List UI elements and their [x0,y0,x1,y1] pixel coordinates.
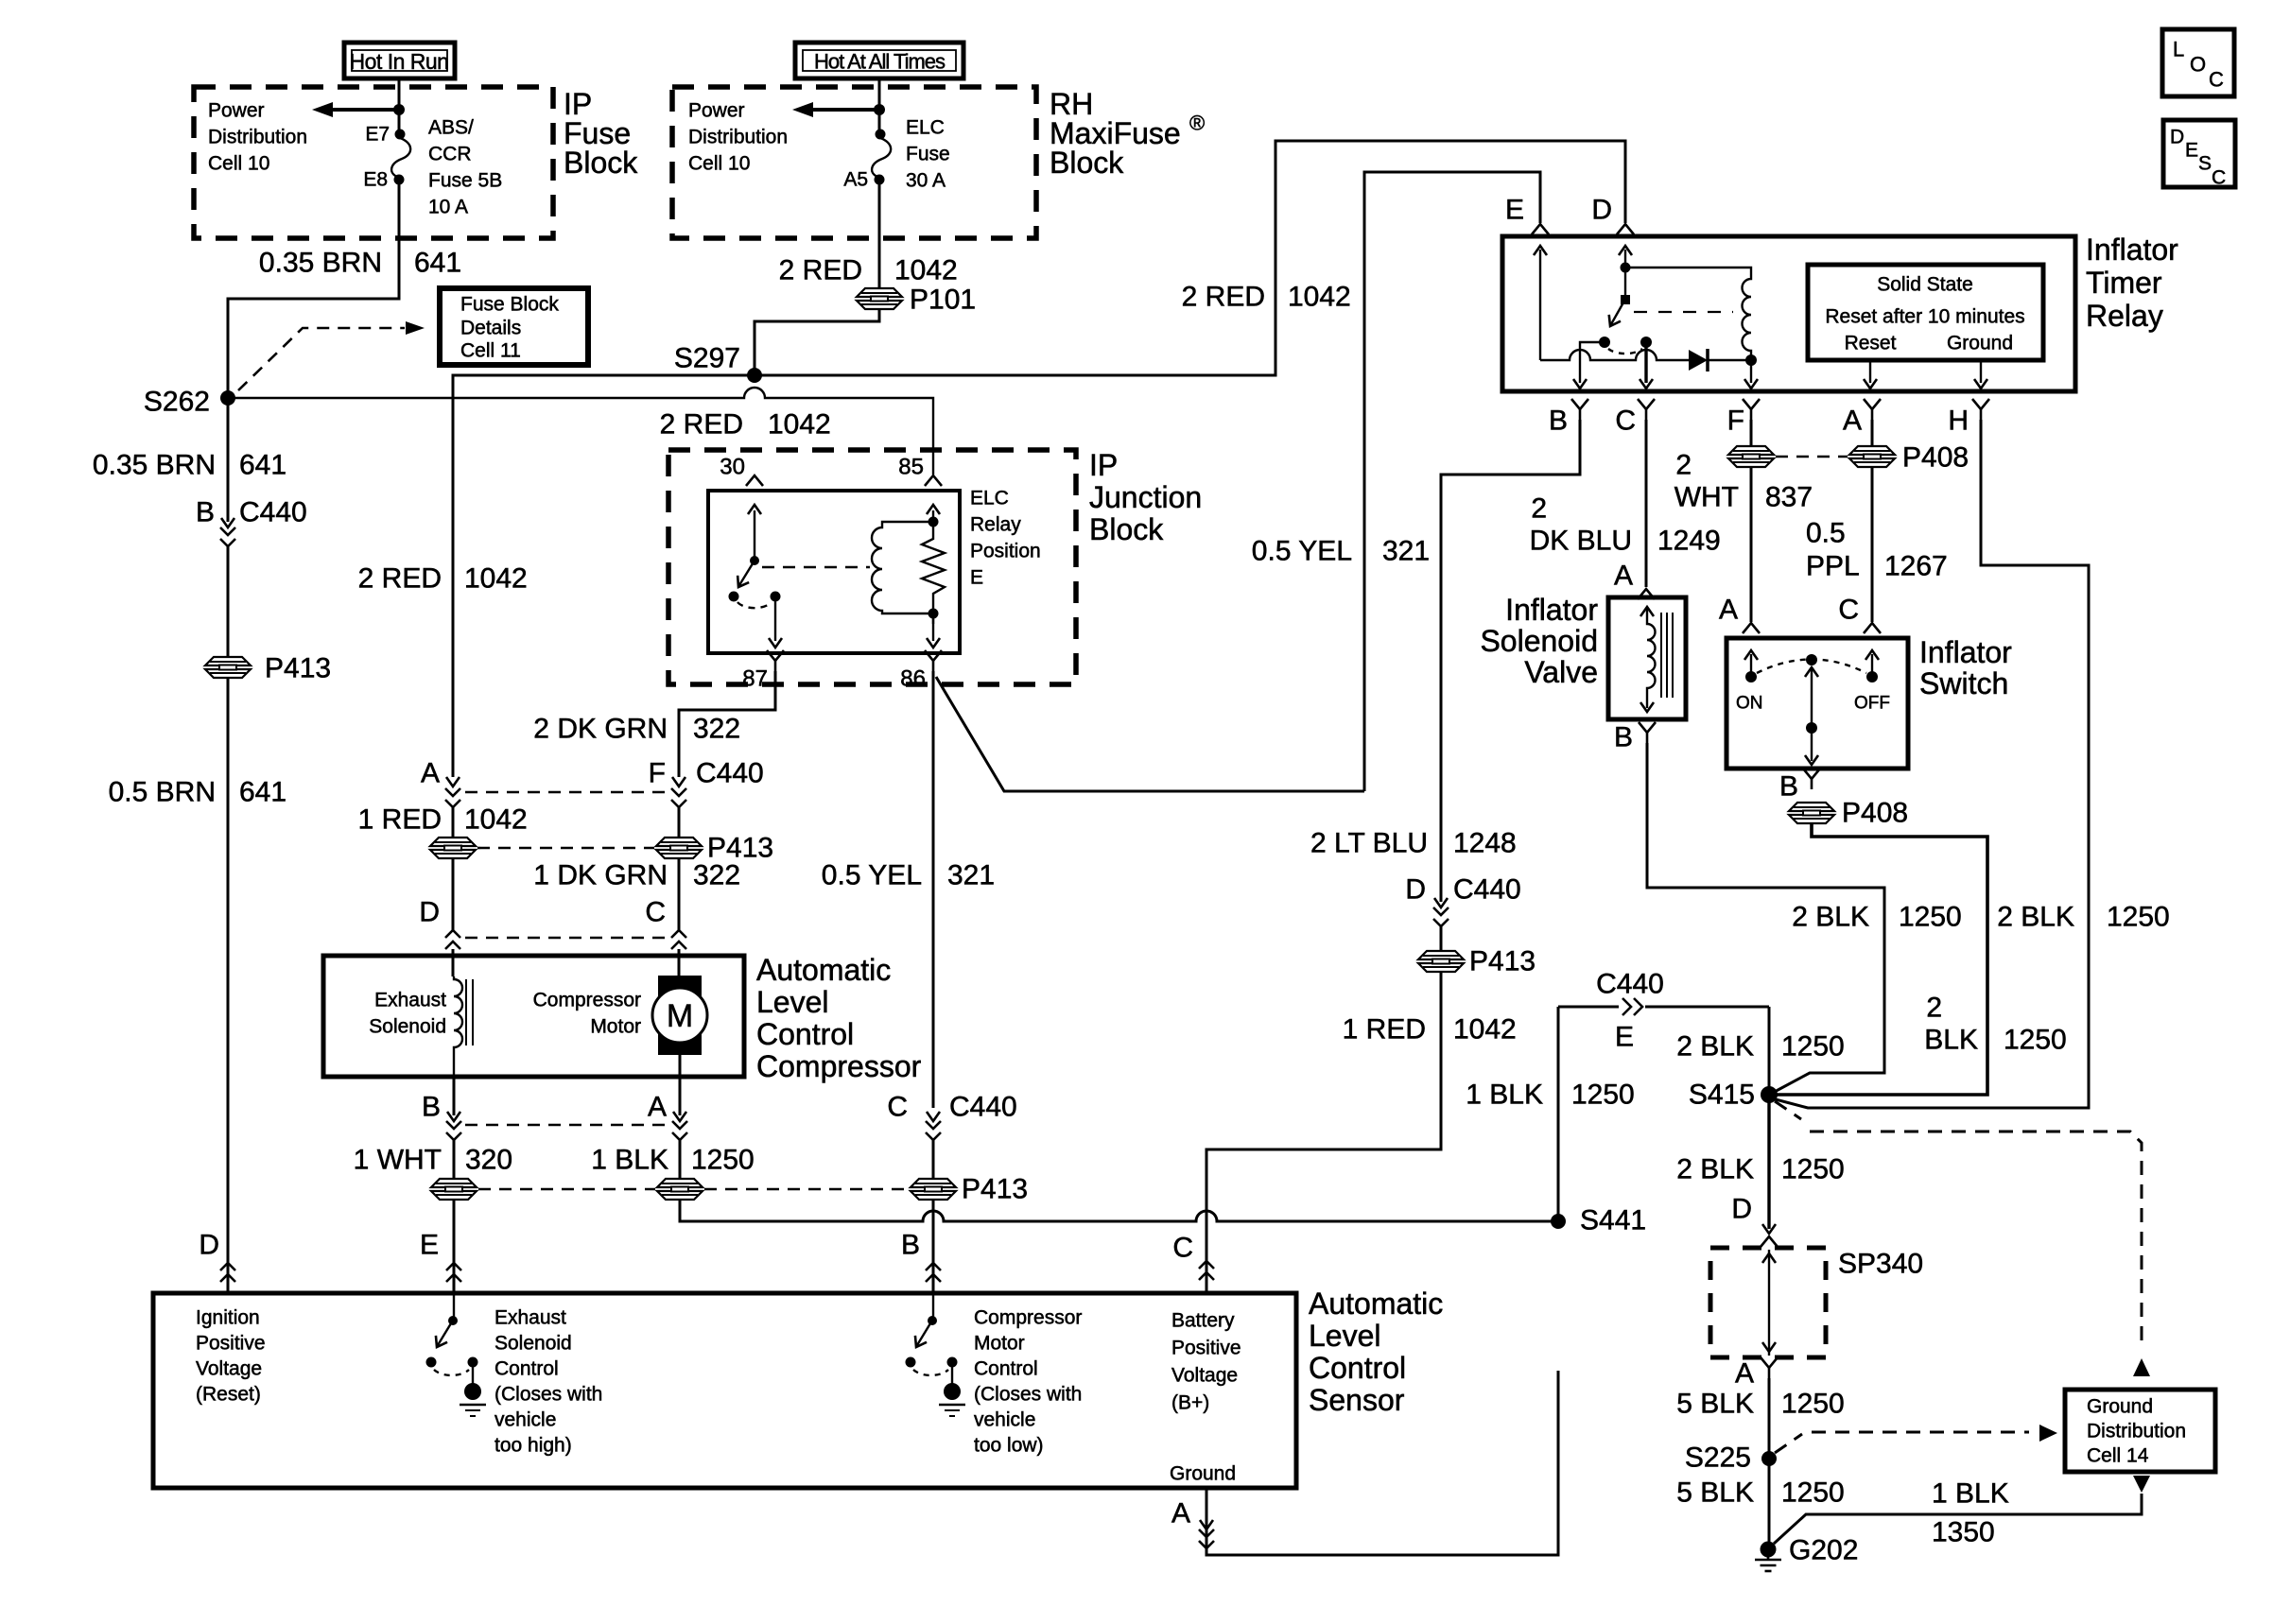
svg-text:Control: Control [756,1017,854,1051]
connector P408 (A side) [1849,446,1895,467]
switch ON contact [1736,650,1763,714]
wire 0.5 YEL to sensor B [932,1200,935,1293]
svg-text:Block: Block [1050,146,1124,180]
svg-text:Motor: Motor [974,1333,1025,1355]
svg-text:2 BLK: 2 BLK [1792,902,1869,933]
svg-text:Compressor: Compressor [756,1049,922,1083]
svg-text:D: D [199,1230,219,1261]
svg-text:P408: P408 [1842,798,1908,829]
svg-text:B: B [901,1230,920,1261]
dashed connector line D-C [465,937,668,940]
svg-text:1 RED: 1 RED [1343,1014,1426,1045]
svg-text:0.35 BRN: 0.35 BRN [259,248,382,279]
svg-text:B: B [422,1092,441,1123]
svg-text:Distribution: Distribution [208,127,307,148]
connector P101 [857,288,902,309]
relay contact 30 arm [729,505,762,602]
ALC compressor box [323,956,744,1077]
svg-text:DK BLU: DK BLU [1530,526,1632,557]
power distribution feed arrow [312,102,405,117]
svg-text:0.5 YEL: 0.5 YEL [822,860,922,891]
IP junction block dashed box [668,450,1076,684]
svg-text:C440: C440 [1453,874,1521,906]
connector P413 (red wire) [430,838,476,858]
svg-text:2 LT BLU: 2 LT BLU [1310,828,1428,859]
relay coil (ELC) [872,517,939,619]
ELC fuse upper terminal [876,130,886,140]
svg-text:Solenoid: Solenoid [369,1016,446,1038]
switch OFF contact [1854,650,1890,714]
svg-text:S415: S415 [1689,1080,1755,1111]
wire from Hot At All Times into maxifuse block [878,78,881,134]
svg-text:too low): too low) [974,1435,1044,1457]
svg-text:E: E [2185,140,2198,162]
svg-text:1250: 1250 [1571,1080,1635,1111]
svg-text:1250: 1250 [691,1145,755,1176]
solenoid valve coil [1640,607,1673,712]
svg-text:Distribution: Distribution [688,127,788,148]
svg-text:L: L [2173,38,2184,61]
svg-text:1042: 1042 [464,563,528,595]
wire relay H to S415 [1772,420,2089,1108]
svg-text:P413: P413 [265,653,331,684]
inflator switch box [1726,638,1908,769]
svg-text:D: D [419,897,440,928]
svg-text:30 A: 30 A [906,170,946,192]
svg-text:0.5: 0.5 [1806,518,1846,549]
svg-text:Distribution: Distribution [2087,1421,2186,1443]
svg-text:B: B [1779,771,1798,803]
svg-text:too high): too high) [495,1435,572,1457]
switch wiper [1805,654,1818,765]
ELC fuse terminal A5 [875,175,885,185]
terminal A (compressor) [648,1077,687,1179]
wire 1 WHT to sensor E [453,1200,456,1293]
svg-text:Compressor: Compressor [533,990,641,1011]
svg-text:2: 2 [1675,450,1692,481]
wire sensor A ground path [1206,1371,1558,1555]
svg-text:B: B [1549,406,1568,437]
wire 0.5 BRN 641 down to sensor D [227,678,230,1293]
svg-text:A: A [1843,406,1862,437]
svg-text:S262: S262 [144,387,210,418]
svg-text:Solenoid: Solenoid [1480,624,1598,658]
relay dashed link to coil [1634,311,1733,313]
svg-text:D: D [1731,1194,1752,1225]
wire 86 to sensor C column [932,671,935,1108]
dashed arrow into distribution [2133,1358,2150,1376]
compressor motor symbol [652,976,707,1077]
svg-text:86: 86 [900,666,926,692]
svg-text:Power: Power [688,100,745,122]
svg-text:(Reset): (Reset) [196,1384,261,1406]
svg-text:Voltage: Voltage [196,1358,262,1380]
svg-text:Block: Block [1089,512,1164,546]
svg-text:E: E [1615,1022,1634,1053]
connector C440 E chevrons [446,1263,461,1282]
terminal A (sensor ground) [1171,1488,1214,1550]
svg-text:2 BLK: 2 BLK [1676,1031,1754,1063]
flag box Hot In Run [344,43,455,78]
svg-text:G202: G202 [1789,1535,1858,1566]
svg-text:C440: C440 [239,497,307,528]
svg-text:C440: C440 [949,1092,1017,1123]
svg-text:Cell 11: Cell 11 [460,340,521,362]
svg-text:1042: 1042 [464,804,528,836]
wire A P408 to switch C [1871,467,1874,622]
wire SP340 A to G202 [1768,1378,1771,1549]
svg-text:C: C [2212,167,2226,189]
dashed arrow into box [2039,1425,2057,1442]
svg-text:H: H [1948,406,1969,437]
svg-text:1250: 1250 [1781,1154,1845,1185]
ELC relay box [708,491,960,653]
svg-text:85: 85 [898,455,924,480]
relay resistor [922,510,945,624]
solid state ground lead [1974,360,1987,389]
svg-text:Ground: Ground [2087,1396,2153,1418]
wire G202 to ground distribution [1774,1494,2142,1544]
svg-text:1249: 1249 [1657,526,1721,557]
svg-text:87: 87 [742,666,768,692]
inflator solenoid valve box [1608,597,1686,719]
svg-text:D: D [2170,127,2184,148]
reference tab LOC [2162,29,2234,96]
svg-text:P413: P413 [962,1174,1028,1205]
svg-text:1 BLK: 1 BLK [1932,1478,2009,1510]
svg-text:Fuse Block: Fuse Block [460,294,559,316]
svg-text:1042: 1042 [894,255,958,286]
svg-text:Level: Level [756,985,829,1019]
svg-text:Power: Power [208,100,265,122]
svg-text:1250: 1250 [1781,1031,1845,1063]
svg-text:C: C [1172,1233,1193,1264]
dashed connector line B-A [465,1124,668,1127]
svg-text:0.5 YEL: 0.5 YEL [1252,536,1352,567]
svg-text:E7: E7 [365,124,390,146]
dashed reference arrow to fuse block details [238,321,425,390]
svg-text:837: 837 [1765,482,1813,513]
svg-text:1 BLK: 1 BLK [591,1145,668,1176]
svg-text:Details: Details [460,318,521,339]
svg-text:1250: 1250 [1781,1477,1845,1509]
svg-text:D: D [1591,195,1612,226]
svg-text:D: D [1405,874,1426,906]
svg-text:30: 30 [720,455,745,480]
SP340 internal link [1762,1250,1776,1356]
wire to S415 [1768,1007,1771,1095]
relay common to B [1580,342,1605,383]
svg-text:Hot In Run: Hot In Run [350,49,449,74]
wire 2 DK GRN 322 from 87 to F [679,671,775,777]
svg-text:B: B [1614,722,1633,753]
splice S262 [220,390,235,406]
svg-text:Solid State: Solid State [1877,274,1973,296]
svg-text:C: C [1615,406,1636,437]
svg-text:C: C [1838,595,1859,626]
svg-text:Level: Level [1309,1319,1381,1353]
svg-text:S441: S441 [1580,1205,1646,1236]
wire 1 RED to compressor D [452,858,455,930]
reference box Ground Distribution Cell 14 [2065,1390,2215,1472]
svg-text:SP340: SP340 [1838,1249,1923,1280]
svg-text:Cell 14: Cell 14 [2087,1445,2149,1467]
svg-text:F: F [1727,406,1744,437]
switch wiper dashed arc [1757,660,1866,674]
svg-text:5 BLK: 5 BLK [1676,1477,1754,1509]
svg-text:Switch: Switch [1919,666,2008,700]
svg-text:E8: E8 [363,169,388,191]
svg-text:Positive: Positive [1171,1338,1241,1359]
svg-text:(Closes with: (Closes with [974,1384,1082,1406]
svg-text:P408: P408 [1902,442,1969,474]
svg-text:Control: Control [974,1358,1038,1380]
relay bottom rail with hops [1540,350,1689,360]
compressor motor control switch [906,1293,966,1416]
svg-text:P413: P413 [1469,946,1536,977]
svg-text:A: A [648,1092,667,1123]
dashed wire S225 to ground distribution [1775,1432,2029,1453]
wire relay C to inflator solenoid valve [1645,420,1648,587]
svg-text:641: 641 [239,777,286,808]
splice S441 [1551,1214,1566,1229]
svg-text:641: 641 [239,450,286,481]
svg-text:Motor: Motor [590,1016,641,1038]
svg-text:B: B [196,497,215,528]
svg-text:Reset after 10 minutes: Reset after 10 minutes [1825,306,2024,328]
svg-text:IP: IP [1089,448,1118,482]
svg-text:vehicle: vehicle [495,1409,556,1431]
inflator timer relay box [1502,236,2075,391]
connector C440 D chevrons [220,1263,235,1282]
svg-text:1250: 1250 [1899,902,1962,933]
wire 1 RED 1042 to sensor C [1206,972,1441,1293]
wire 1 DK GRN to compressor C [678,858,681,930]
wire 0.5 YEL riser to relay E [1364,172,1540,791]
svg-text:320: 320 [465,1145,512,1176]
svg-text:C: C [887,1092,908,1123]
connector P413 (yel) [911,1179,956,1200]
svg-text:321: 321 [947,860,995,891]
svg-text:0.5 BRN: 0.5 BRN [109,777,216,808]
wire S415 down [1767,1095,1770,1229]
wire 2 RED 1042 from A5 to P101 [878,180,881,288]
splice S225 [1761,1451,1777,1466]
svg-text:(B+): (B+) [1171,1392,1209,1414]
svg-text:WHT: WHT [1674,482,1739,513]
svg-text:C440: C440 [696,758,764,789]
svg-text:Timer: Timer [2086,266,2162,300]
svg-text:OFF: OFF [1854,694,1890,714]
svg-text:Cell 10: Cell 10 [688,153,750,175]
svg-text:5 BLK: 5 BLK [1676,1389,1754,1420]
connector C440 terminal E (blk) [1558,969,1769,1053]
svg-text:Automatic: Automatic [1309,1287,1443,1321]
relay dashed link [762,566,870,569]
svg-text:Compressor: Compressor [974,1307,1082,1329]
svg-text:ELC: ELC [970,488,1009,510]
splice S297 [747,368,762,383]
svg-text:C440: C440 [1596,969,1664,1000]
svg-text:Inflator: Inflator [1919,635,2012,669]
splice S415 [1761,1086,1778,1103]
wire relay F to P408 [1750,420,1753,446]
svg-text:2 BLK: 2 BLK [1997,902,2074,933]
IP fuse block dashed box [194,87,553,238]
svg-text:1042: 1042 [1453,1014,1517,1045]
svg-text:Control: Control [495,1358,559,1380]
connector P413 (lt blu) [1418,951,1464,972]
svg-text:Solenoid: Solenoid [495,1333,572,1355]
wire from P101 down to S297 [755,309,879,375]
svg-text:1267: 1267 [1884,551,1948,582]
svg-text:Cell 10: Cell 10 [208,153,269,175]
svg-text:1 WHT: 1 WHT [354,1145,442,1176]
svg-text:1350: 1350 [1932,1517,1995,1548]
solid state reset lead [1864,360,1877,389]
dashed connector line P413 pair [477,847,654,850]
connector P413 (dk grn wire) [656,838,702,858]
wire S441 up to C440 E [1557,1007,1560,1221]
svg-text:1 DK GRN: 1 DK GRN [533,860,668,891]
svg-text:Relay: Relay [970,514,1021,536]
svg-text:A: A [1614,561,1633,592]
connector C440 terminal A [421,758,460,838]
svg-text:CCR: CCR [428,144,472,165]
connector P408 (switch B) [1789,803,1834,823]
wire S297 left to 2 RED drop [453,375,755,777]
connector C440 terminal D (lt blu) [1405,874,1520,952]
svg-text:A5: A5 [843,169,868,191]
relay 86 exit arrow [927,613,940,648]
svg-text:2: 2 [1531,493,1547,525]
svg-text:10 A: 10 A [428,197,468,218]
dashed connector line P413 row [478,1188,909,1191]
svg-text:Hot At All Times: Hot At All Times [814,50,946,74]
svg-text:322: 322 [693,860,740,891]
diode [1689,349,1751,371]
svg-text:641: 641 [414,248,461,279]
svg-text:2 RED: 2 RED [779,255,862,286]
connector P413 (wht) [431,1179,477,1200]
dashed connector line A-F [465,791,668,794]
wire S262 to 85 with hop over 30 wire [228,388,933,475]
wire solenoid B to S415 column [1647,743,1884,1094]
ELC fuse element [872,138,891,177]
relay internal D arm with switch [1599,246,1632,348]
svg-text:Junction: Junction [1089,480,1202,514]
svg-text:Relay: Relay [2086,299,2163,333]
svg-text:Reset: Reset [1845,333,1897,354]
svg-text:Fuse: Fuse [906,144,950,165]
wire switch B to S415 column [1776,823,1987,1095]
svg-text:O: O [2190,53,2206,77]
svg-text:Valve: Valve [1524,655,1598,689]
dashed wire S415 to ground distribution [1775,1101,2142,1350]
svg-text:Fuse 5B: Fuse 5B [428,170,502,192]
svg-text:0.35 BRN: 0.35 BRN [93,450,216,481]
wire 1 BLK to S441 with hops [680,1200,1558,1221]
wire S297 to D of inflator timer relay [755,141,1625,375]
relay 85 arrow [927,505,940,514]
svg-text:Automatic: Automatic [756,953,891,987]
RH maxifuse block dashed box [672,87,1036,238]
svg-text:2 BLK: 2 BLK [1676,1154,1754,1185]
svg-text:S225: S225 [1685,1443,1751,1474]
exhaust solenoid coil [454,976,473,1077]
terminal B (compressor) [422,1077,461,1179]
connector P408 (F side) [1728,446,1774,467]
svg-text:C: C [645,897,666,928]
svg-text:E: E [970,567,983,589]
connector P413 (blk) [657,1179,703,1200]
svg-text:1250: 1250 [1781,1389,1845,1420]
ground G202 [1755,1542,1781,1572]
svg-text:A: A [1719,595,1738,626]
fuse ABS/CCR terminal E8 [394,175,405,185]
flag box Hot At All Times [795,43,963,78]
svg-text:F: F [649,758,666,789]
svg-text:2 DK GRN: 2 DK GRN [533,714,668,745]
connector C440 terminal C (compressor) [645,897,686,976]
svg-text:Positive: Positive [196,1333,266,1355]
relay fixed contact 87 [737,592,782,648]
svg-text:ELC: ELC [906,117,945,139]
svg-text:1 RED: 1 RED [358,804,442,836]
svg-text:A: A [1171,1498,1190,1529]
reference box Fuse Block Details Cell 11 [440,288,588,365]
wire relay A to P408 [1871,420,1874,446]
svg-text:2: 2 [1926,993,1942,1024]
svg-text:P101: P101 [910,285,976,316]
svg-text:1042: 1042 [1288,282,1351,313]
wire F P408 to switch A [1750,467,1753,622]
svg-text:Exhaust: Exhaust [374,990,446,1011]
svg-text:Control: Control [1309,1351,1406,1385]
wire 0.35 BRN 641 from E8 down and left to S262 [228,180,399,398]
svg-text:1250: 1250 [2004,1025,2067,1056]
solid state box [1808,265,2043,360]
svg-text:2 RED: 2 RED [1182,282,1265,313]
connector C440 terminal C (yel) [887,1092,1016,1180]
connector P413 (ignition wire) [205,657,251,678]
svg-text:2 RED: 2 RED [660,409,743,441]
solid arrow into box bottom [2133,1476,2150,1493]
svg-text:A: A [1735,1358,1754,1390]
splice SP340 dashed box [1710,1248,1826,1357]
svg-text:1248: 1248 [1453,828,1517,859]
svg-text:M: M [667,998,693,1034]
svg-text:Inflator: Inflator [2086,233,2178,267]
svg-text:BLK: BLK [1924,1025,1978,1056]
svg-text:®: ® [1189,112,1205,135]
svg-text:2 RED: 2 RED [358,563,442,595]
wire from Hot In Run into fuse block [398,78,401,134]
connector C440 terminal F [649,758,764,838]
svg-text:C: C [2209,68,2224,92]
connector C440 B chevrons [926,1263,941,1282]
reference tab DESC [2163,120,2235,189]
wire 86 branch diagonal to 0.5 YEL riser [936,677,1364,791]
svg-text:Block: Block [564,146,638,180]
svg-text:A: A [421,758,440,789]
power distribution feed arrow (right) [792,102,885,117]
svg-text:ABS/: ABS/ [428,117,474,139]
svg-text:(Closes with: (Closes with [495,1384,602,1406]
connector C440 C chevrons [1199,1261,1214,1280]
svg-text:Position: Position [970,541,1041,562]
svg-text:Ground: Ground [1947,333,2013,354]
